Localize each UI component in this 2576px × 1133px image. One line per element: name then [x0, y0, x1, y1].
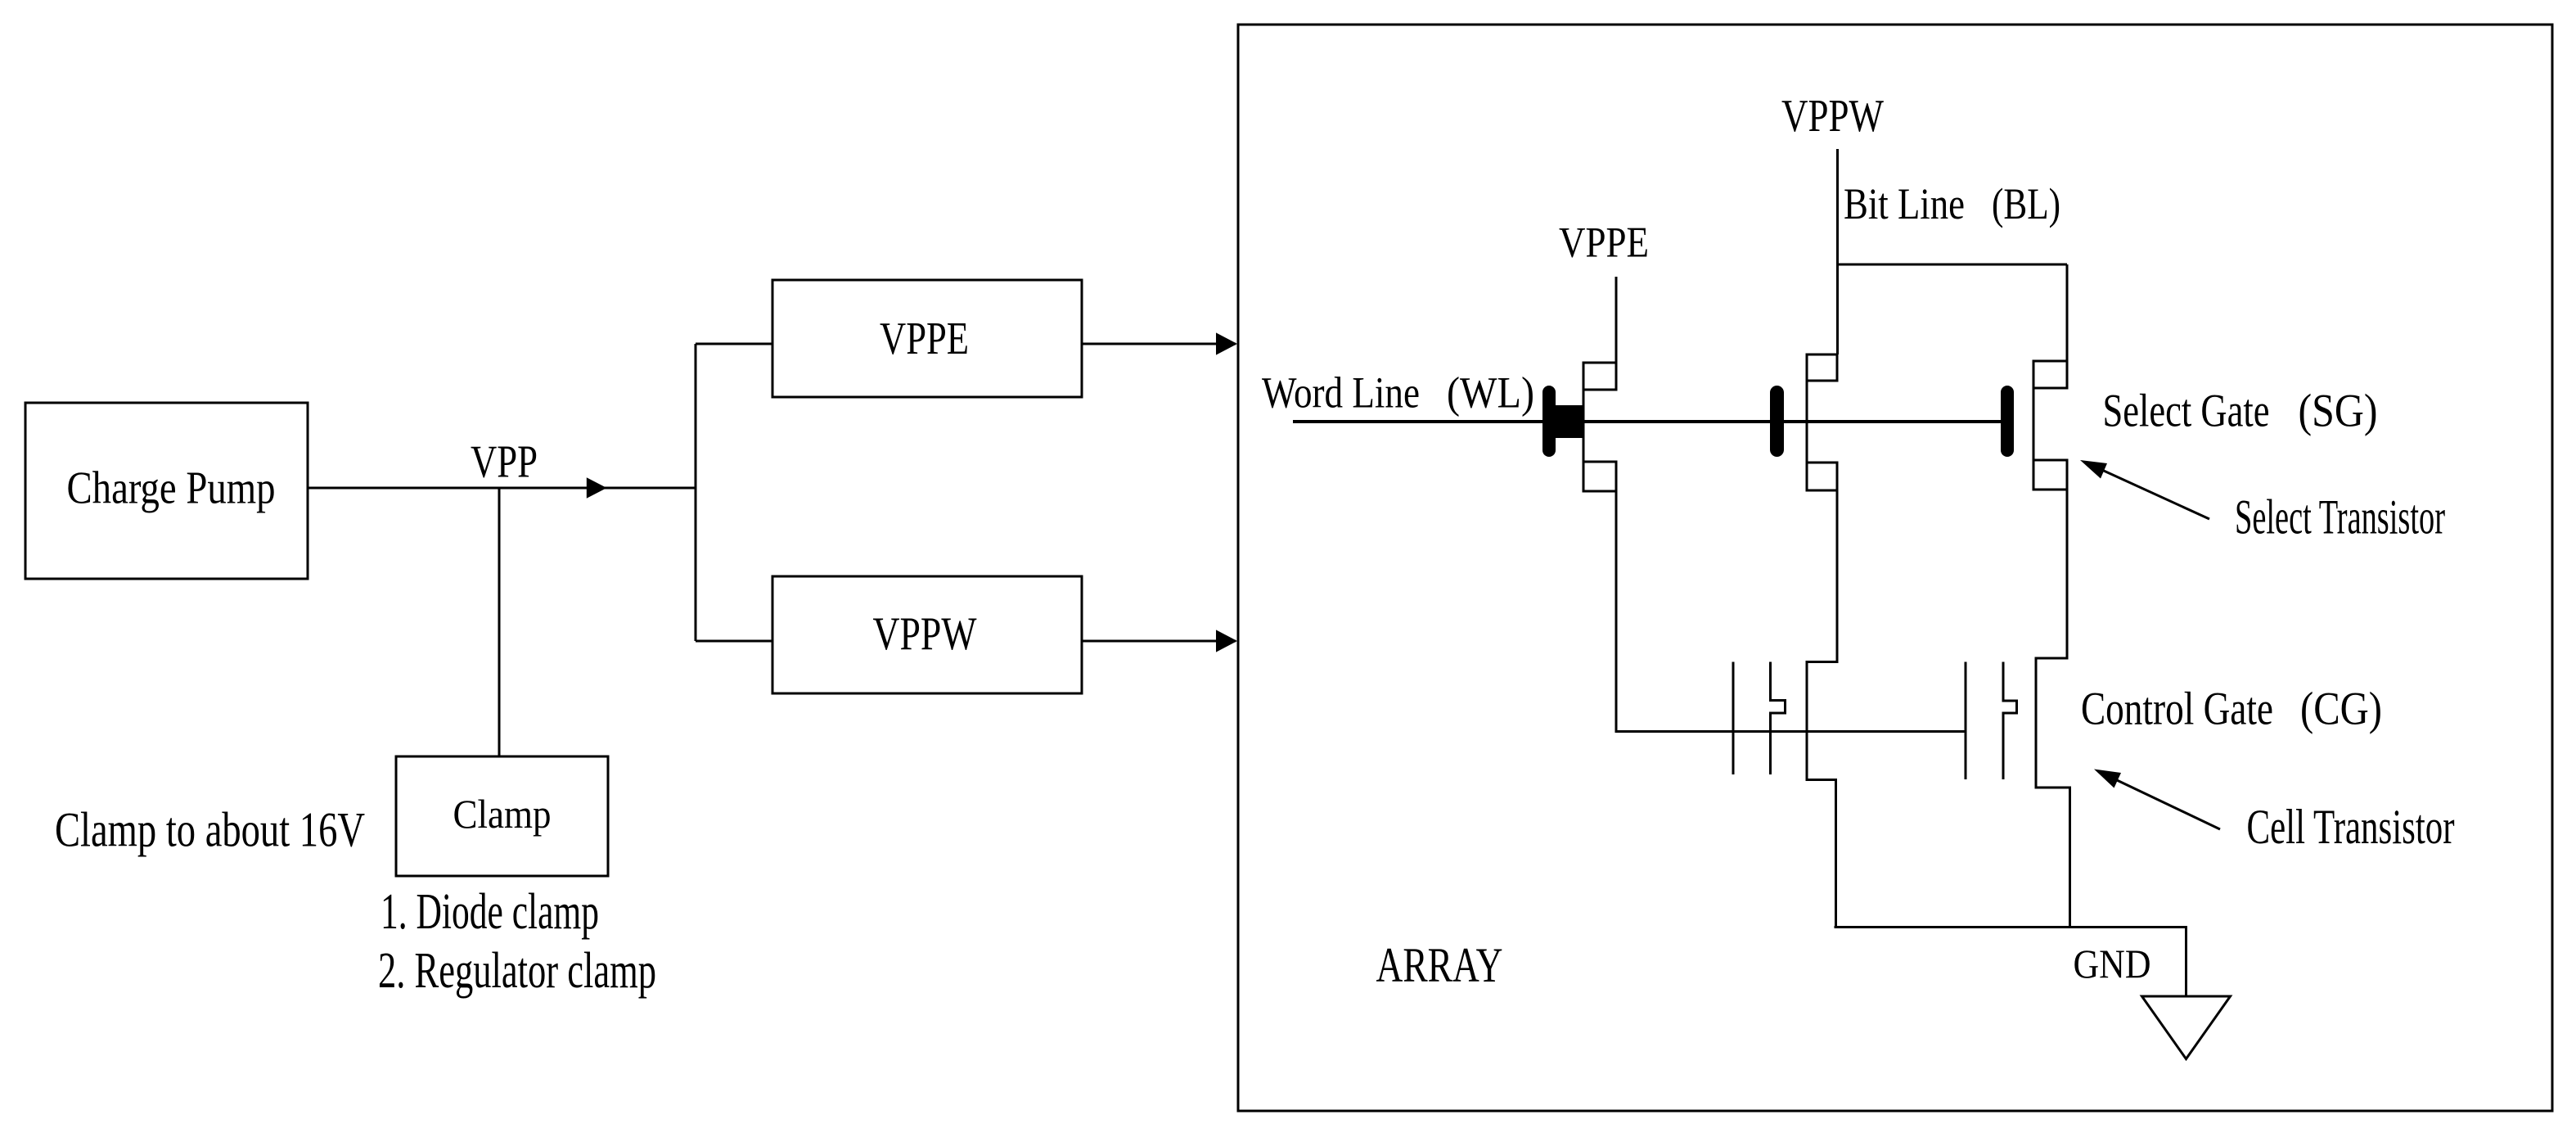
svg-text:VPPE: VPPE: [880, 314, 969, 364]
svg-text:VPPW: VPPW: [1781, 91, 1884, 142]
svg-text:Bit Line: Bit Line: [1844, 179, 1965, 228]
svg-text:Control Gate: Control Gate: [2081, 684, 2273, 735]
svg-text:Select Transistor: Select Transistor: [2235, 490, 2445, 544]
svg-text:(CG): (CG): [2300, 684, 2382, 735]
svg-text:Charge Pump: Charge Pump: [67, 463, 276, 514]
svg-text:VPPE: VPPE: [1559, 219, 1649, 267]
svg-text:GND: GND: [2074, 941, 2151, 986]
svg-text:(WL): (WL): [1447, 368, 1534, 418]
svg-text:Clamp: Clamp: [453, 791, 552, 837]
svg-text:(SG): (SG): [2299, 385, 2378, 436]
svg-text:2. Regulator clamp: 2. Regulator clamp: [378, 943, 656, 999]
svg-text:Word Line: Word Line: [1262, 368, 1420, 418]
svg-text:VPP: VPP: [471, 437, 538, 488]
svg-text:Select Gate: Select Gate: [2103, 385, 2270, 436]
svg-text:(BL): (BL): [1992, 179, 2060, 228]
svg-text:Clamp to about 16V: Clamp to about 16V: [55, 803, 365, 857]
svg-text:VPPW: VPPW: [873, 608, 977, 660]
svg-text:ARRAY: ARRAY: [1376, 938, 1503, 992]
svg-text:Cell Transistor: Cell Transistor: [2247, 800, 2455, 854]
svg-text:1. Diode clamp: 1. Diode clamp: [381, 884, 599, 940]
